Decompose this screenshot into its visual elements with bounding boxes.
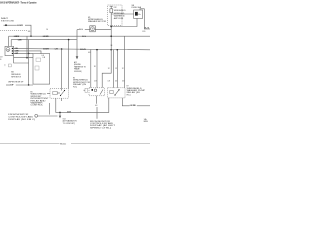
svg-text:W MOTOR CONN: W MOTOR CONN [1, 21, 14, 23]
svg-text:M4/2: M4/2 [1, 18, 8, 20]
svg-text:WINDSHIELD: WINDSHIELD [11, 74, 21, 76]
svg-text:8W-53 WIPER/WASHER - Theory of: 8W-53 WIPER/WASHER - Theory of Operation [0, 1, 37, 4]
svg-text:FROM MONITOR: FROM MONITOR [8, 114, 29, 116]
svg-text:WIPER MOTOR: WIPER MOTOR [11, 77, 21, 79]
svg-text:M4: M4 [11, 71, 14, 73]
svg-text:M: M [7, 50, 9, 52]
